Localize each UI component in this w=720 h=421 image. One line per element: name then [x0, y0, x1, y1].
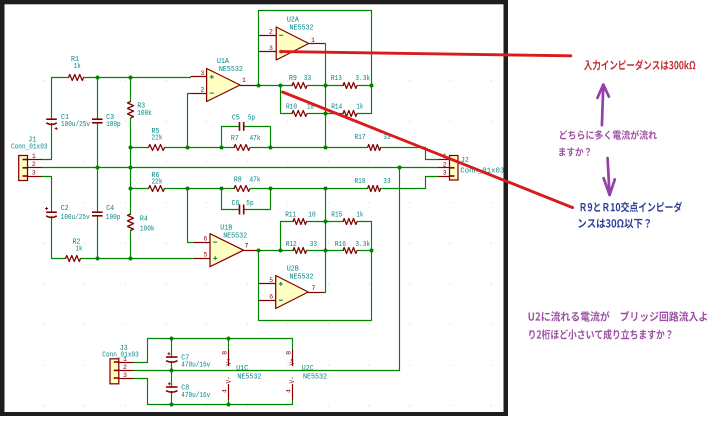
svg-text:C2: C2 — [61, 205, 69, 213]
svg-text:U1C: U1C — [236, 365, 249, 373]
svg-text:R16: R16 — [335, 241, 346, 249]
svg-text:R4: R4 — [140, 215, 149, 223]
svg-text:R9: R9 — [289, 75, 297, 83]
svg-text:470u/16v: 470u/16v — [181, 392, 211, 400]
svg-text:3.3k: 3.3k — [355, 75, 370, 83]
svg-text:2: 2 — [32, 161, 36, 168]
svg-text:3: 3 — [123, 372, 127, 379]
svg-text:NE5532: NE5532 — [290, 24, 314, 32]
svg-text:R18: R18 — [355, 178, 366, 186]
svg-text:4: 4 — [285, 389, 292, 393]
svg-text:R17: R17 — [355, 134, 366, 142]
svg-text:1k: 1k — [76, 246, 83, 254]
svg-text:1k: 1k — [356, 212, 363, 220]
svg-text:1: 1 — [123, 356, 127, 363]
svg-text:V+: V+ — [289, 358, 296, 366]
svg-text:47k: 47k — [250, 176, 262, 184]
svg-text:NE5532: NE5532 — [303, 373, 327, 381]
svg-text:Conn_01x03: Conn_01x03 — [11, 144, 48, 152]
svg-text:100p: 100p — [106, 121, 121, 129]
svg-text:V+: V+ — [226, 358, 233, 366]
svg-text:5p: 5p — [248, 115, 255, 123]
svg-text:R7: R7 — [231, 135, 239, 143]
svg-text:V-: V- — [226, 376, 233, 383]
svg-text:NE5532: NE5532 — [290, 274, 314, 282]
svg-text:Conn_01x03: Conn_01x03 — [102, 352, 139, 360]
svg-text:C5: C5 — [232, 115, 240, 123]
svg-text:V-: V- — [289, 376, 296, 383]
svg-text:1k: 1k — [74, 63, 81, 71]
svg-text:U2B: U2B — [287, 265, 300, 273]
svg-text:1k: 1k — [356, 103, 363, 111]
svg-text:U2C: U2C — [302, 365, 315, 373]
svg-text:R14: R14 — [331, 103, 343, 111]
svg-text:3: 3 — [443, 170, 447, 177]
svg-text:33: 33 — [310, 241, 317, 249]
svg-text:4: 4 — [222, 389, 229, 393]
svg-text:100p: 100p — [106, 214, 121, 222]
svg-text:5: 5 — [269, 277, 273, 284]
svg-text:C6: C6 — [232, 200, 240, 208]
svg-text:2: 2 — [269, 29, 273, 36]
svg-text:U1A: U1A — [217, 58, 230, 66]
svg-text:8: 8 — [222, 351, 229, 355]
svg-text:100u/25v: 100u/25v — [61, 121, 91, 129]
svg-text:6: 6 — [203, 235, 207, 242]
svg-text:1: 1 — [242, 77, 246, 84]
svg-text:NE5532: NE5532 — [223, 233, 247, 241]
svg-text:22k: 22k — [152, 135, 164, 143]
svg-text:R10: R10 — [286, 103, 297, 111]
svg-text:10: 10 — [308, 212, 315, 220]
svg-text:NE5532: NE5532 — [237, 373, 261, 381]
svg-text:R15: R15 — [331, 212, 342, 220]
svg-text:U2A: U2A — [287, 16, 300, 24]
svg-text:NE5532: NE5532 — [219, 66, 243, 74]
svg-text:470u/16v: 470u/16v — [181, 362, 211, 370]
svg-text:5p: 5p — [246, 200, 253, 208]
svg-text:2: 2 — [443, 161, 447, 168]
svg-text:100k: 100k — [140, 225, 155, 233]
svg-text:5: 5 — [203, 252, 207, 259]
svg-text:C4: C4 — [106, 205, 115, 213]
svg-text:3: 3 — [200, 70, 204, 77]
svg-text:22k: 22k — [152, 179, 164, 187]
svg-text:2: 2 — [200, 86, 204, 93]
svg-text:R8: R8 — [234, 176, 242, 184]
svg-text:R12: R12 — [286, 241, 297, 249]
svg-text:R13: R13 — [331, 75, 342, 83]
svg-text:7: 7 — [245, 243, 249, 250]
svg-text:U1B: U1B — [220, 224, 233, 232]
svg-text:3.3k: 3.3k — [355, 241, 370, 249]
svg-text:8: 8 — [285, 351, 292, 355]
svg-text:3: 3 — [269, 45, 273, 52]
svg-text:100k: 100k — [137, 110, 152, 118]
svg-text:100u/25v: 100u/25v — [61, 214, 91, 222]
svg-text:47k: 47k — [250, 135, 262, 143]
svg-text:33: 33 — [383, 178, 390, 186]
svg-text:7: 7 — [312, 285, 316, 292]
svg-text:33: 33 — [304, 75, 311, 83]
svg-text:6: 6 — [269, 294, 273, 301]
svg-text:3: 3 — [32, 169, 36, 176]
svg-text:1: 1 — [32, 153, 36, 160]
svg-text:2: 2 — [123, 364, 127, 371]
svg-text:R11: R11 — [285, 212, 297, 220]
svg-text:1: 1 — [311, 37, 315, 44]
